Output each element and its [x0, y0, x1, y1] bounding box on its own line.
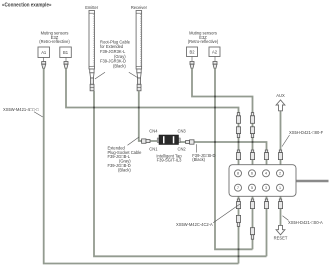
label AUX: [276, 93, 285, 98]
svg-text:1: 1: [279, 186, 281, 190]
trunk cable to controller: [296, 180, 328, 183]
label XS5W-M42C extension: [176, 222, 213, 227]
leader XS5H aux: [282, 135, 290, 147]
label muting sensors right: [188, 31, 219, 45]
connector pair right of tap CN2: [186, 140, 194, 144]
svg-text:6: 6: [251, 172, 253, 176]
plug connector below block pin3: [264, 199, 268, 209]
8-pin receptacle block: [229, 165, 296, 197]
receiver root cable plug connector: [137, 78, 141, 91]
wire receiver cable to tap CN1: [139, 91, 159, 141]
svg-text:XS5W-M421-4□□-□: XS5W-M421-4□□-□: [3, 107, 39, 112]
leader root-plug to receiver: [129, 72, 139, 78]
plug connector below block pin7: [236, 199, 240, 209]
receiver label: [131, 5, 148, 10]
label root-plug cable: [100, 39, 131, 68]
svg-text:(Black): (Black): [192, 157, 205, 162]
svg-text:7: 7: [237, 186, 239, 190]
wire A1 sensor cable down: [44, 68, 239, 263]
aux output up arrow: [276, 100, 285, 111]
emitter label: [85, 5, 99, 10]
svg-text:8: 8: [237, 172, 239, 176]
wire pin5 down to A2 bus: [252, 196, 254, 249]
extension connector pair on pin8 column: [236, 113, 240, 138]
leader F39-JGB-D to wire: [196, 144, 198, 152]
svg-text:XS5H-D421-□S0-A: XS5H-D421-□S0-A: [288, 220, 323, 225]
label intelligent tap: [156, 153, 182, 162]
muting sensor A2: [209, 47, 220, 57]
svg-text:(Black): (Black): [113, 63, 126, 68]
svg-text:4: 4: [265, 172, 267, 176]
plug connector below block pin5: [250, 199, 254, 209]
svg-text:F39-SGIT-IL3: F39-SGIT-IL3: [157, 158, 183, 163]
muting sensor A1: [38, 47, 50, 58]
svg-text:B1: B1: [63, 50, 69, 55]
wire B2 sensor cable to pin6: [192, 68, 253, 164]
receiver bar: [136, 11, 142, 70]
plug connector above block pin8: [236, 150, 240, 160]
label CN3: [178, 129, 187, 134]
connector under sensor A1: [42, 58, 46, 69]
wire emitter cable down and to pin3: [94, 91, 267, 256]
connector pair left of tap CN1: [142, 139, 150, 143]
title Connection example: [2, 3, 52, 9]
svg-text:CN1: CN1: [149, 146, 158, 151]
extension connector lower on pin7 column: [236, 215, 240, 226]
svg-text:2: 2: [279, 172, 281, 176]
emitter root cable plug connector: [90, 78, 94, 91]
connector under sensor B1: [64, 58, 68, 69]
connector under sensor B2: [190, 57, 194, 69]
muting sensor B1: [60, 47, 72, 58]
label XS5H-D421-S0-A: [288, 220, 323, 225]
wire pin3 down to emitter bus: [266, 196, 268, 256]
svg-text:5: 5: [251, 186, 253, 190]
wire pin1 down to reset arrow: [280, 196, 282, 225]
svg-text:A1: A1: [41, 50, 47, 55]
svg-text:Receiver: Receiver: [131, 5, 148, 10]
label CN2: [178, 146, 187, 151]
svg-text:AUX: AUX: [276, 93, 285, 98]
svg-text:CN4: CN4: [149, 129, 158, 134]
plug connector above block pin2: [278, 150, 282, 160]
connector under sensor A2: [213, 57, 217, 69]
svg-text:3: 3: [265, 186, 267, 190]
leader XS5H reset: [283, 216, 289, 221]
wire pin7 down to A1 bus: [238, 196, 240, 263]
svg-text:(Black): (Black): [118, 167, 131, 172]
svg-text:XS5H-D421-□80-F: XS5H-D421-□80-F: [289, 130, 324, 135]
svg-text:A2: A2: [212, 50, 218, 55]
svg-text:B2: B2: [189, 50, 195, 55]
svg-text:(Retro-reflective): (Retro-reflective): [188, 39, 219, 44]
label XS5W-M421 cable: [3, 107, 39, 112]
wire aux arrow down to pin2: [280, 111, 282, 165]
intelligent tap F39-SGIT-IL3: [157, 135, 180, 145]
leader root-plug to emitter: [95, 72, 105, 79]
emitter end cap: [90, 69, 94, 78]
svg-text:XS5W-M42C-4C2-A: XS5W-M42C-4C2-A: [176, 222, 213, 227]
wire A2 sensor cable down: [215, 68, 253, 249]
pin numbers: [237, 172, 281, 190]
svg-text:(Retro-reflective): (Retro-reflective): [39, 39, 70, 44]
label CN1: [149, 146, 158, 151]
plug connector above block pin4: [264, 150, 268, 160]
svg-text:RESET: RESET: [274, 236, 288, 241]
label CN4: [149, 129, 158, 134]
label XS5H-D421-80-F: [289, 130, 324, 135]
label F39-JGB-D black: [192, 153, 215, 162]
svg-text:Emitter: Emitter: [85, 5, 99, 10]
wire B1 sensor cable to pin8: [66, 68, 239, 164]
leader XS5W-M42C to connector: [213, 204, 240, 223]
label RESET: [274, 236, 288, 241]
extension connector lower on pin5 column: [250, 228, 254, 240]
receiver end cap: [137, 69, 141, 78]
leader extended cable to receiver cable: [128, 137, 140, 145]
svg-text:CN2: CN2: [178, 146, 187, 151]
leader XS5W-M421 to A1 cable: [34, 112, 43, 117]
reset input down arrow: [276, 225, 285, 234]
label extended plug-socket cable: [108, 145, 143, 172]
extension connector pair on pin6 column: [250, 113, 254, 138]
plug connector below block pin1: [278, 199, 282, 209]
muting sensor B2: [187, 47, 198, 57]
label muting sensors left: [39, 31, 70, 45]
svg-text:CN3: CN3: [178, 129, 187, 134]
plug connector above block pin6: [250, 150, 254, 160]
emitter bar: [89, 11, 95, 70]
svg-text:«Connection example»: «Connection example»: [2, 3, 52, 9]
wire tap CN2 to pin4: [179, 142, 267, 165]
